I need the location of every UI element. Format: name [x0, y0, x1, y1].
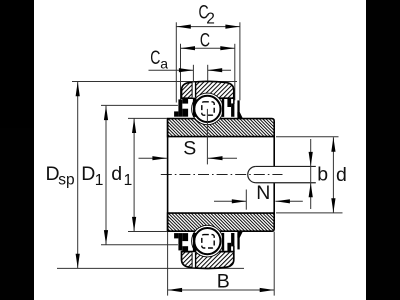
shoulder bar bottom-left — [193, 233, 197, 251]
seal bottom-left lower blob — [182, 233, 188, 241]
seal top-left foot — [174, 111, 178, 116]
centerline — [161, 173, 283, 175]
extension line C right — [234, 44, 236, 101]
shoulder bar top-right — [222, 99, 224, 117]
dimension Dsp — [46, 82, 80, 269]
seal top-left upper blob — [182, 98, 188, 104]
dimension S — [139, 137, 238, 160]
outer ring right face lower stub top — [233, 98, 235, 104]
right black bar — [366, 0, 400, 300]
dimension B — [168, 271, 275, 293]
ball bottom — [194, 228, 220, 254]
svg-text:d: d — [336, 164, 347, 186]
extension line Dsp bottom tangent — [57, 267, 244, 269]
seal bottom-left foot — [174, 233, 178, 238]
left black bar — [0, 0, 34, 300]
extension line D1 top — [101, 104, 178, 106]
dimension Ca — [149, 47, 232, 73]
ball axis line top — [206, 109, 208, 164]
svg-text:b: b — [317, 164, 328, 186]
lubrication slit bottom — [192, 252, 196, 267]
seal top-right flinger foot — [237, 112, 242, 118]
dimension d — [331, 137, 347, 213]
raceway gap around bottom ball — [192, 225, 224, 257]
svg-text:C: C — [150, 47, 160, 69]
seal top-right upper bar — [227, 98, 231, 107]
seal bottom-left bar — [178, 233, 182, 250]
svg-text:1: 1 — [95, 172, 104, 189]
svg-text:N: N — [256, 182, 270, 204]
extension line C2 left — [175, 22, 177, 102]
Ca tick left — [192, 65, 194, 83]
svg-text:D: D — [81, 163, 95, 185]
extension line D1 bottom — [101, 244, 178, 246]
extension line Dsp top tangent — [72, 81, 237, 83]
inner ring bottom band — [168, 213, 275, 231]
extension line bore top right — [276, 136, 339, 138]
shoulder bar bottom-right — [222, 233, 224, 251]
shaft pin (protrusion) — [248, 166, 316, 182]
extension line bore bottom right — [276, 212, 343, 214]
svg-text:d: d — [111, 163, 122, 185]
svg-text:a: a — [160, 55, 168, 71]
extension line C left — [180, 44, 182, 100]
extension line B left — [167, 232, 169, 296]
cage top (dashed square) — [202, 102, 214, 115]
dimension b — [309, 139, 329, 209]
outer ring bottom (dome) — [182, 252, 234, 269]
svg-text:sp: sp — [58, 171, 74, 188]
seal top-left bar — [178, 99, 182, 116]
extension line C2 right — [239, 22, 241, 100]
svg-text:B: B — [217, 271, 230, 293]
seal top-right mid blob — [231, 103, 234, 116]
dimension d1 — [111, 119, 136, 232]
svg-text:S: S — [183, 137, 196, 159]
svg-text:2: 2 — [206, 11, 215, 28]
ball top — [194, 96, 220, 122]
inner ring left face — [167, 119, 169, 232]
shoulder bar top-left — [193, 99, 197, 117]
extension line d1 bottom — [128, 231, 167, 233]
inner ring right face lower segment — [273, 183, 275, 213]
seal bottom-right flinger bar — [237, 233, 239, 249]
raceway gap around top ball — [192, 93, 224, 125]
outer ring top (dome) — [182, 81, 234, 98]
seal bottom-right upper bar — [227, 243, 231, 252]
dimension N — [214, 182, 303, 210]
svg-text:C: C — [200, 29, 210, 51]
dimension C2 — [176, 1, 240, 28]
outer ring right face lower stub bottom — [233, 246, 235, 252]
seal top-left lower blob — [182, 109, 188, 117]
inner ring top band — [168, 119, 275, 137]
seal bottom-right mid blob — [231, 233, 234, 246]
dimension C — [181, 29, 235, 51]
lubrication slit top — [192, 82, 196, 97]
seal top-right flinger bar — [237, 100, 239, 116]
extension line B right — [273, 232, 275, 296]
svg-text:1: 1 — [124, 172, 133, 189]
cage bottom (dashed square) — [202, 235, 214, 248]
dimension D1 — [81, 106, 108, 245]
inner ring right face upper segment — [273, 137, 275, 167]
Ca tick right — [207, 65, 209, 81]
seal bottom-left upper blob — [182, 246, 188, 252]
extension line d1 top — [128, 117, 167, 119]
seal bottom-right flinger foot — [237, 232, 242, 238]
